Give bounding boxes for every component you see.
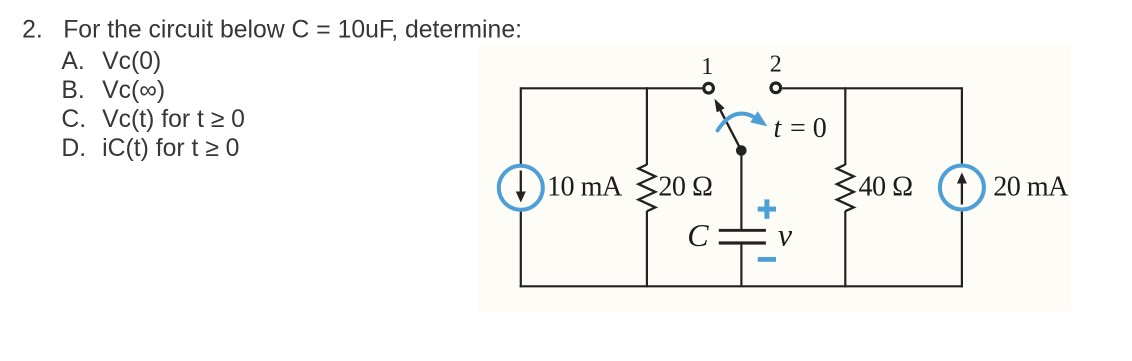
svg-text:Vc(t) for t ≥ 0: Vc(t) for t ≥ 0	[102, 106, 245, 133]
wire: capacitor to bottom	[740, 245, 742, 287]
svg-text:v: v	[778, 217, 793, 253]
wire: 20 ohm branch upper	[646, 87, 648, 165]
item A	[61, 48, 161, 75]
svg-text:20 mA: 20 mA	[993, 172, 1069, 203]
item D	[61, 135, 239, 162]
wire: 40 ohm branch lower	[844, 211, 846, 287]
switch terminal 2	[771, 83, 781, 93]
label 20 ohm	[658, 172, 712, 203]
label 1	[701, 54, 713, 80]
wire: right edge lower	[961, 212, 963, 288]
label 40 ohm	[859, 172, 913, 203]
switch terminal 1	[704, 83, 714, 93]
svg-text:Vc(∞): Vc(∞)	[102, 77, 165, 104]
plus sign (blue)	[758, 199, 776, 218]
wire: top left segment (corner to switch terminal 1)	[521, 87, 703, 89]
item C	[61, 106, 245, 133]
svg-text:iC(t) for t ≥ 0: iC(t) for t ≥ 0	[102, 135, 239, 162]
capacitor C plates	[719, 229, 766, 245]
svg-text:A.: A.	[61, 48, 84, 75]
scan panel background	[478, 46, 1071, 311]
svg-text:Vc(0): Vc(0)	[102, 48, 161, 75]
svg-text:10 mA: 10 mA	[547, 172, 623, 203]
current source I2 20 mA (circle with up arrow)	[940, 166, 984, 210]
item B	[61, 77, 165, 104]
switch arm with arrowhead	[714, 99, 741, 151]
resistor R2 40 ohm (zigzag)	[837, 165, 854, 212]
label 20 mA	[993, 172, 1069, 203]
svg-text:40 Ω: 40 Ω	[859, 172, 913, 203]
wire: 40 ohm branch upper	[844, 87, 846, 165]
label 10 mA	[547, 172, 623, 203]
wire: node to capacitor	[740, 151, 742, 230]
label v	[778, 217, 793, 253]
svg-text:D.: D.	[61, 135, 86, 162]
wire: right edge upper	[961, 87, 963, 163]
blue actuation arrow of switch	[718, 111, 768, 130]
svg-text:20 Ω: 20 Ω	[658, 172, 712, 203]
minus sign (blue)	[758, 257, 776, 262]
wire: top right segment (switch terminal 2 to right corner)	[782, 87, 962, 89]
label C	[687, 217, 709, 253]
problem text line 1	[22, 17, 522, 44]
wire: left edge lower	[520, 210, 522, 287]
resistor R1 20 ohm (zigzag)	[638, 165, 655, 212]
svg-text:1: 1	[701, 54, 713, 80]
svg-text:2.: 2.	[22, 17, 43, 44]
wire: bottom	[520, 285, 963, 287]
wire: left edge upper	[520, 87, 522, 166]
label 2	[770, 52, 782, 78]
wire: 20 ohm branch lower	[646, 211, 648, 287]
current source I1 10 mA (circle with down arrow)	[499, 166, 543, 210]
svg-text:t: t	[774, 113, 783, 144]
label t = 0	[774, 113, 827, 144]
svg-text:= 0: = 0	[790, 113, 827, 144]
svg-text:For the circuit below C = 10uF: For the circuit below C = 10uF, determin…	[63, 17, 522, 44]
svg-text:C.: C.	[61, 106, 86, 133]
svg-text:B.: B.	[61, 77, 84, 104]
switch node dot	[736, 145, 747, 156]
svg-text:C: C	[687, 217, 709, 253]
svg-text:2: 2	[770, 52, 782, 78]
